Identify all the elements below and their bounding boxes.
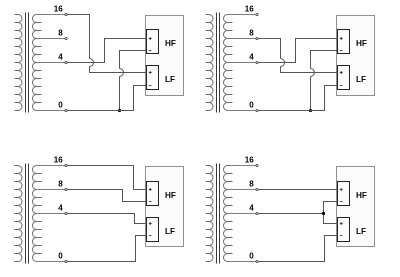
transformer T3 xyxy=(15,166,42,262)
wire to LF plus xyxy=(90,67,147,73)
T2 terminal 4 xyxy=(256,61,258,63)
wire T3 tap4 to LF plus xyxy=(67,214,146,224)
T4 tap line 8 xyxy=(228,189,256,191)
T2 core xyxy=(217,13,220,113)
HF minus terminal xyxy=(340,201,342,203)
T1 core xyxy=(26,13,29,113)
T2 terminal 8 xyxy=(256,37,258,39)
hop over LF plus wire xyxy=(311,69,315,77)
T1 terminal 0 xyxy=(65,109,67,111)
T1 tap line 0 xyxy=(37,110,65,112)
junction HF minus / 0 rail xyxy=(309,109,312,112)
T1 tap line 4 xyxy=(37,62,65,64)
wire T2 tap4 to HF plus xyxy=(258,39,337,63)
svg-text:4: 4 xyxy=(58,53,63,62)
T1 terminal 16 xyxy=(65,13,67,15)
T2 terminal 16 xyxy=(256,13,258,15)
T2 tap line 4 xyxy=(228,62,256,64)
T3 tap line 16 xyxy=(37,165,65,167)
T2 tap line 0 xyxy=(228,110,256,112)
HF plus terminal xyxy=(340,37,343,40)
T3 terminal 0 xyxy=(65,260,67,262)
svg-text:4: 4 xyxy=(58,204,63,213)
hop over tap4 wire xyxy=(281,59,285,67)
speaker enclosure SP2 xyxy=(337,16,375,96)
svg-text:HF: HF xyxy=(165,39,176,48)
svg-text:LF: LF xyxy=(356,227,366,236)
svg-text:4: 4 xyxy=(249,53,254,62)
wire T2 tap0 to LF minus xyxy=(258,86,337,111)
svg-text:HF: HF xyxy=(356,191,367,200)
svg-text:LF: LF xyxy=(165,75,175,84)
svg-text:4: 4 xyxy=(249,204,254,213)
svg-text:8: 8 xyxy=(58,29,63,38)
svg-text:0: 0 xyxy=(249,252,254,261)
svg-text:8: 8 xyxy=(249,29,254,38)
wire HF minus down xyxy=(120,51,147,69)
T3 tap line 8 xyxy=(37,189,65,191)
T3 tap line 0 xyxy=(37,261,65,263)
T2 tap line 16 xyxy=(228,14,256,16)
HF driver of SP2 xyxy=(338,30,350,54)
wire T2 tap8 right and down xyxy=(258,39,280,59)
svg-text:8: 8 xyxy=(58,180,63,189)
T1 tap line 8 xyxy=(37,38,65,40)
svg-text:16: 16 xyxy=(54,5,63,14)
wire T3 tap0 to LF minus xyxy=(67,236,146,262)
T1 tap line 16 xyxy=(37,14,65,16)
T2 tap line 8 xyxy=(228,38,256,40)
wire T1 tap0 to LF minus xyxy=(67,86,146,111)
LF driver of SP3 xyxy=(147,218,159,242)
wire to LF plus xyxy=(281,67,338,73)
HF plus terminal xyxy=(149,188,152,191)
svg-text:0: 0 xyxy=(58,101,63,110)
wire HF minus to 0 rail xyxy=(119,77,121,111)
HF driver of SP3 xyxy=(147,182,159,206)
T3 tap line 4 xyxy=(37,213,65,215)
T4 tap line 4 xyxy=(228,213,256,215)
speaker enclosure SP4 xyxy=(337,167,375,247)
wire T3 tap16 to HF plus xyxy=(67,166,146,190)
T4 terminal 0 xyxy=(256,260,258,262)
transformer T1 xyxy=(15,15,42,111)
svg-text:0: 0 xyxy=(58,252,63,261)
HF driver of SP1 xyxy=(147,30,159,54)
LF minus terminal xyxy=(340,235,342,237)
wire T4 tap4 to junction xyxy=(258,213,323,215)
LF plus terminal xyxy=(149,71,152,74)
wire T4 tap8 to HF plus xyxy=(258,189,337,191)
LF driver of SP4 xyxy=(338,218,350,242)
transformer T2 xyxy=(206,15,233,111)
wire T4 tap0 to LF minus xyxy=(258,236,337,262)
wire T1 tap4 to HF plus xyxy=(67,39,146,63)
speaker enclosure SP1 xyxy=(146,16,184,96)
T4 tap line 0 xyxy=(228,261,256,263)
svg-text:HF: HF xyxy=(165,191,176,200)
wire T1 tap16 right and down xyxy=(67,15,89,59)
HF minus terminal xyxy=(340,50,342,52)
T4 terminal 4 xyxy=(256,212,258,214)
T1 terminal 8 xyxy=(65,37,67,39)
wire T3 tap8 to HF minus xyxy=(67,190,146,202)
T3 terminal 16 xyxy=(65,164,67,166)
hop over tap4 wire xyxy=(90,59,94,67)
svg-text:16: 16 xyxy=(245,156,254,165)
T3 core xyxy=(26,164,29,264)
junction tap4 / HF minus / LF plus xyxy=(322,212,325,215)
T2 terminal 0 xyxy=(256,109,258,111)
LF driver of SP2 xyxy=(338,66,350,90)
svg-text:0: 0 xyxy=(249,101,254,110)
HF minus terminal xyxy=(149,201,151,203)
svg-text:HF: HF xyxy=(356,39,367,48)
LF plus terminal xyxy=(340,222,343,225)
svg-text:16: 16 xyxy=(245,5,254,14)
wire HF minus to 0 rail xyxy=(310,77,312,111)
svg-text:LF: LF xyxy=(165,227,175,236)
LF minus terminal xyxy=(149,235,151,237)
hop over LF plus wire xyxy=(120,69,124,77)
LF plus terminal xyxy=(149,222,152,225)
svg-text:LF: LF xyxy=(356,75,366,84)
T4 tap line 16 xyxy=(228,165,256,167)
LF minus terminal xyxy=(340,85,342,87)
T1 terminal 4 xyxy=(65,61,67,63)
LF plus terminal xyxy=(340,71,343,74)
wire junction to HF minus and LF plus xyxy=(324,202,338,224)
HF plus terminal xyxy=(340,188,343,191)
HF plus terminal xyxy=(149,37,152,40)
T4 core xyxy=(217,164,220,264)
svg-text:8: 8 xyxy=(249,180,254,189)
junction HF minus / 0 rail xyxy=(118,109,121,112)
HF minus terminal xyxy=(149,50,151,52)
LF minus terminal xyxy=(149,85,151,87)
svg-text:16: 16 xyxy=(54,156,63,165)
speaker enclosure SP3 xyxy=(146,167,184,247)
HF driver of SP4 xyxy=(338,182,350,206)
T4 terminal 16 xyxy=(256,164,258,166)
T4 terminal 8 xyxy=(256,188,258,190)
LF driver of SP1 xyxy=(147,66,159,90)
transformer T4 xyxy=(206,166,233,262)
T3 terminal 4 xyxy=(65,212,67,214)
wire HF minus down xyxy=(311,51,338,69)
T3 terminal 8 xyxy=(65,188,67,190)
